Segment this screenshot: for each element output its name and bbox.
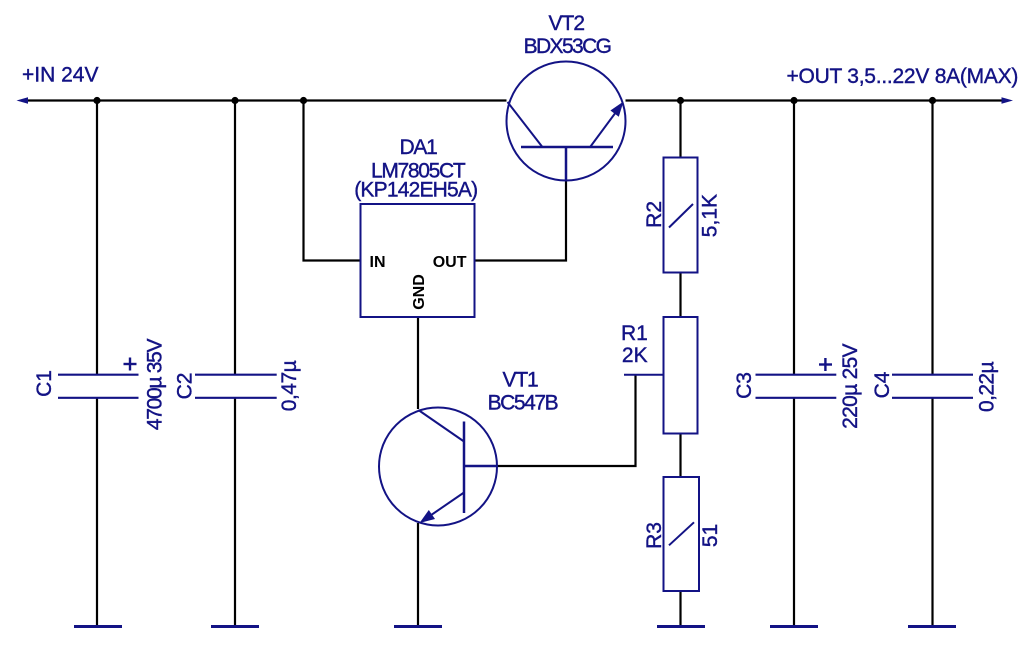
transistor VT2 (BDX53CG) (507, 62, 626, 182)
wire: rail to R2 top (679, 101, 681, 158)
svg-text:DA1: DA1 (400, 136, 438, 159)
wire: R3 bottom to ground (679, 591, 681, 626)
wire: DA1 OUT to VT2 base (476, 181, 567, 261)
svg-text:C1: C1 (33, 370, 56, 397)
wire: C1 upper lead (96, 101, 98, 376)
svg-text:2K: 2K (622, 344, 648, 367)
capacitor C4 plates (892, 375, 973, 398)
op-amp/regulator DA1 box (361, 204, 475, 317)
wire: top rail right segment (VT2 emitter to +OUT) (626, 99, 1004, 101)
wire: R2 bottom to R1 top (679, 273, 681, 318)
node: junction dot R2/rail (677, 97, 684, 104)
wire: C3 lower lead (793, 398, 795, 626)
svg-text:R1: R1 (621, 322, 648, 345)
wire: VT1 emitter to ground (417, 523, 419, 626)
svg-text:4700µ 35V: 4700µ 35V (144, 339, 167, 431)
capacitor C2 plates (195, 375, 277, 398)
wire: VT1 base to R1 wiper (497, 375, 636, 466)
svg-text:GND: GND (411, 274, 428, 310)
wire: C4 upper lead (931, 101, 933, 376)
svg-text:R2: R2 (643, 201, 666, 228)
svg-text:R3: R3 (643, 522, 666, 549)
svg-text:220µ 25V: 220µ 25V (839, 343, 862, 428)
node: junction dot C2/rail (231, 97, 238, 104)
wire: R1 bottom to R3 top (679, 434, 681, 478)
ground (C3) (770, 625, 818, 628)
net +OUT arrow (right) (1002, 97, 1014, 104)
ground (VT1) (394, 625, 442, 628)
svg-text:OUT: OUT (433, 254, 467, 271)
svg-text:(KP142EH5A): (KP142EH5A) (354, 179, 477, 202)
C3 polarity + (819, 358, 832, 371)
wire: rail to DA1 IN (drop and horizontal) (304, 101, 361, 261)
wire: DA1 GND to VT1 collector (417, 317, 419, 409)
node: junction dot C4/rail (929, 97, 936, 104)
svg-text:IN: IN (370, 254, 386, 271)
resistor R2 body (664, 158, 698, 273)
C1 polarity + (124, 358, 137, 371)
svg-text:BDX53CG: BDX53CG (524, 35, 611, 58)
svg-text:C4: C4 (871, 371, 894, 398)
node: junction dot DA1-IN/rail (300, 97, 307, 104)
svg-text:VT1: VT1 (503, 369, 538, 392)
svg-text:C2: C2 (174, 373, 197, 400)
resistor R1 body (with wiper stub) (624, 317, 698, 434)
ground (C4) (908, 625, 956, 628)
wire: C1 lower lead (96, 398, 98, 626)
svg-text:+OUT 3,5...22V 8A(MAX): +OUT 3,5...22V 8A(MAX) (787, 65, 1019, 88)
svg-text:51: 51 (699, 524, 722, 547)
wire: top rail left segment (+IN to VT2 collector) (24, 99, 507, 101)
resistor R3 body (664, 477, 700, 591)
svg-text:C3: C3 (733, 372, 756, 399)
wire: C2 lower lead (234, 398, 236, 626)
svg-text:5,1K: 5,1K (699, 194, 722, 237)
node: junction dot C3/rail (790, 97, 797, 104)
node: junction dot C1/rail (93, 97, 100, 104)
svg-text:BC547B: BC547B (488, 392, 558, 415)
capacitor C1 plates (58, 375, 139, 398)
svg-text:+IN 24V: +IN 24V (22, 64, 98, 87)
svg-text:0,47µ: 0,47µ (278, 360, 301, 411)
ground (R3) (657, 625, 705, 628)
svg-text:0,22µ: 0,22µ (976, 362, 999, 412)
transistor VT1 (BC547B) (379, 408, 497, 526)
wire: C2 upper lead (234, 101, 236, 376)
ground (C2) (211, 625, 259, 628)
wire: C4 lower lead (931, 398, 933, 626)
svg-text:VT2: VT2 (549, 12, 585, 35)
ground (C1) (74, 625, 122, 628)
wire: C3 upper lead (793, 101, 795, 376)
net +IN arrow (left) (17, 97, 29, 104)
capacitor C3 plates (756, 375, 837, 398)
